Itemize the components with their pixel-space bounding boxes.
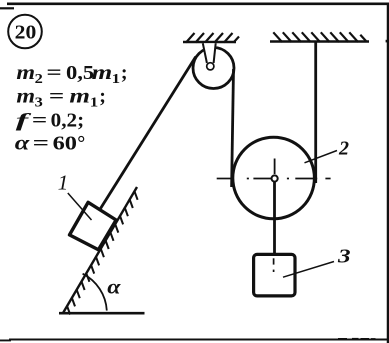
frame bottom border — [0, 339, 389, 342]
ground line — [59, 312, 145, 315]
disk 2 axle — [272, 175, 278, 181]
svg-text:1: 1 — [58, 171, 69, 195]
small pulley circle — [193, 48, 234, 89]
centerline mark inside block 3 — [273, 258, 275, 264]
frame right border — [387, 3, 389, 343]
pulley axle — [207, 63, 214, 70]
incline hatching — [67, 191, 138, 314]
angle arc — [83, 274, 107, 311]
svg-text:m2=0,5m1;: m2=0,5m1; — [16, 62, 127, 86]
incline surface line — [63, 187, 137, 313]
right ceiling line — [270, 40, 369, 42]
svg-text:f=0,2;: f=0,2; — [16, 110, 84, 132]
left ceiling line — [183, 41, 236, 43]
frame top border — [0, 7, 14, 9]
svg-text:α: α — [107, 275, 121, 298]
rope from right ceiling to disk 2 — [314, 43, 317, 184]
rope from small pulley down to disk 2 — [232, 69, 234, 187]
svg-text:2: 2 — [338, 138, 349, 160]
pulley clevis bracket — [202, 43, 217, 63]
left ceiling hatching — [186, 33, 239, 43]
block 3 — [254, 254, 295, 296]
svg-text:3: 3 — [337, 246, 351, 268]
disk 2 (large pulley) — [233, 137, 315, 219]
right ceiling hatching — [273, 32, 366, 42]
vertical centerline above axle — [274, 159, 276, 175]
svg-text:20: 20 — [15, 22, 37, 44]
horizontal dash-dot centerline — [217, 178, 331, 180]
rope from block 1 to small pulley — [101, 57, 196, 209]
leader line to disk 2 — [305, 151, 338, 163]
leader line to block 1 — [68, 193, 92, 220]
block 1 on incline — [70, 202, 117, 250]
rope from disk 2 axle to block 3 — [273, 182, 276, 254]
bottom-right adjacent frame dashes — [338, 338, 376, 340]
problem number circle 20 — [8, 15, 42, 49]
leader line to block 3 — [283, 262, 334, 278]
